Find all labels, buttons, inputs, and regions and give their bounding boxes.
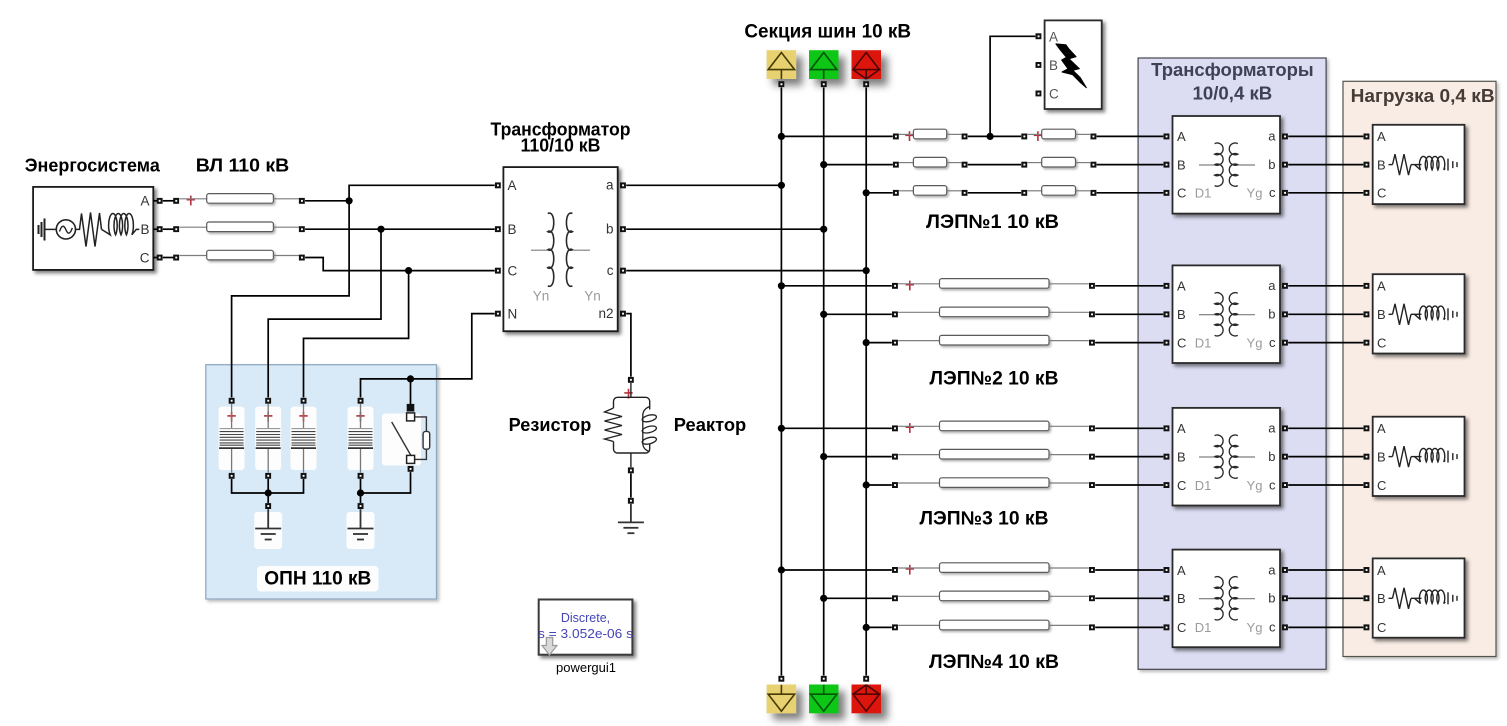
svg-text:A: A (508, 178, 517, 193)
wire LEP3 to transformer 3 C (1095, 484, 1163, 486)
block transformer 10/0.4 #3 (1173, 408, 1281, 506)
wire n2 down to RL branch (626, 314, 631, 377)
VL 110 kV line block phase C (207, 250, 274, 260)
source output port A (157, 198, 163, 204)
LEP1 seg1 input port A (893, 134, 899, 140)
arrester 3 background (291, 407, 317, 470)
ground 2 symbol (348, 509, 374, 539)
bus block top phase B (809, 50, 839, 79)
transformer 110/10 output port c (620, 268, 626, 274)
svg-text:A: A (1177, 421, 1186, 436)
LEP2 output port A (1089, 283, 1095, 289)
arrester 2 icon (256, 404, 281, 473)
svg-text:a: a (606, 178, 614, 193)
LEP4 right stub B (1049, 595, 1089, 597)
transformer 1 output port b (1282, 162, 1288, 168)
transformer 110/10 input port B (495, 226, 501, 232)
svg-text:B: B (1177, 157, 1186, 172)
LEP1 seg2 right stub B (1076, 162, 1091, 164)
junction bus to LEP4 B (820, 595, 827, 602)
transformer 1 secondary winding (1229, 143, 1238, 186)
svg-text:C: C (140, 250, 150, 265)
svg-text:B: B (1377, 157, 1386, 172)
wire LEP1 mid A (968, 135, 1021, 137)
LEP3 output port C (1089, 482, 1095, 488)
LEP4 output port B (1089, 595, 1095, 601)
wire LEP4 to transformer 4 C (1095, 626, 1163, 628)
transformer 2 input port A (1164, 283, 1170, 289)
arrester 1 polarity + (227, 412, 235, 422)
block powergui1 (539, 600, 633, 655)
VL 110 kV line block phase B (207, 222, 274, 232)
svg-text:Yg: Yg (1247, 620, 1263, 635)
transformer 2 secondary winding (1229, 293, 1238, 336)
wire transformer output c to bus (626, 270, 866, 272)
transformer 1 secondary stub (1238, 164, 1255, 166)
bus top port C (863, 81, 869, 87)
svg-text:Резистор: Резистор (509, 415, 592, 435)
breaker background (382, 414, 421, 466)
VL B right stub (273, 226, 299, 228)
block three-phase fault (1045, 20, 1102, 109)
VL line input port A (173, 198, 179, 204)
wire VL A to junction (305, 200, 349, 202)
LEP3 output port B (1089, 454, 1095, 460)
wire transformer 3 to load 3 C (1288, 484, 1363, 486)
LEP1 10 kV line segment 1 phase B (913, 157, 946, 167)
transformer 110/10 input port N (495, 311, 501, 317)
wire A down to arrester 1 (232, 201, 350, 398)
junction LEP1 fault tap (987, 133, 994, 140)
svg-text:b: b (1268, 307, 1275, 322)
LEP4 input port B (892, 595, 898, 601)
LEP2 right stub B (1049, 311, 1089, 313)
LEP1 seg2 input port B (1021, 162, 1027, 168)
svg-text:Yg: Yg (1247, 478, 1263, 493)
LEP1 seg2 right stub C (1076, 190, 1091, 192)
LEP2 left stub B (898, 311, 939, 313)
LEP3 left stub B (898, 454, 939, 456)
wire bus to LEP3 A (781, 427, 891, 429)
svg-text:C: C (1177, 186, 1186, 201)
svg-text:Энергосистема: Энергосистема (25, 156, 161, 176)
block transformer 10/0.4 #1 (1173, 116, 1281, 214)
LEP4 10 kV line block phase A (940, 563, 1050, 573)
transformer 110/10 output port a (620, 182, 626, 188)
breaker output port (408, 466, 414, 472)
arrester 1 input port (229, 398, 235, 404)
arrester 4 output port (358, 473, 364, 479)
LEP4 measurement + (906, 565, 914, 575)
svg-text:C: C (1177, 335, 1186, 350)
wire A up to transformer input A (349, 185, 495, 201)
wire port pair B (163, 228, 176, 230)
wire LEP3 to transformer 3 B (1095, 456, 1163, 458)
load 3 RLC icon (1389, 446, 1458, 467)
junction bus b (820, 226, 827, 233)
transformer 2 output port b (1282, 311, 1288, 317)
bus top port A (778, 81, 784, 87)
wire LEP2 to transformer 2 B (1095, 313, 1163, 315)
svg-text:B: B (1177, 591, 1186, 606)
svg-text:c: c (607, 263, 614, 278)
transformer 3 output port c (1282, 482, 1288, 488)
LEP1 seg2 input port C (1021, 190, 1027, 196)
svg-text:B: B (140, 222, 149, 237)
svg-text:a: a (1268, 562, 1276, 577)
transformer 110/10 output port b (620, 226, 626, 232)
LEP1 10 kV line segment 2 phase A (1042, 129, 1076, 139)
load 3 input port C (1364, 482, 1370, 488)
transformer 1 input port A (1164, 134, 1170, 140)
transformer 2 input port B (1164, 311, 1170, 317)
RL branch polarity + (624, 389, 632, 399)
fault block input port C (1036, 91, 1042, 97)
wire arresters 1-3 common (232, 479, 304, 493)
svg-text:C: C (1377, 186, 1386, 201)
junction arrester 4 / breaker (357, 489, 364, 496)
transformer 110/10 input port A (495, 182, 501, 188)
block load 0.4 kV #3 (1373, 417, 1465, 496)
bus block top phase C (852, 50, 882, 79)
svg-text:n2: n2 (598, 306, 613, 321)
arrester 2 background (255, 407, 281, 470)
wire transformer 2 to load 2 C (1288, 342, 1363, 344)
LEP1 seg2 measurement + (1034, 131, 1042, 141)
transformer 1 input port B (1164, 162, 1170, 168)
wire bus to LEP4 A (781, 569, 891, 571)
bus vertical line phase C (865, 87, 867, 675)
wire transformer 4 to load 4 A (1288, 569, 1363, 571)
wire bus to LEP2 A (781, 285, 891, 287)
LEP1 seg1 left stub C (899, 190, 913, 192)
fault block input port A (1036, 33, 1042, 39)
powergui arrow icon (542, 638, 557, 656)
load 1 input port A (1364, 134, 1370, 140)
wire port pair A (163, 200, 176, 202)
wire LEP1 mid C (968, 192, 1021, 194)
wire transformer 3 to load 3 A (1288, 427, 1363, 429)
breaker terminal squares (407, 413, 415, 464)
VL line input port C (173, 255, 179, 261)
VL phase A measurement + (187, 196, 195, 206)
arrester 1 icon (219, 404, 244, 473)
arrester 3 output port (301, 473, 307, 479)
LEP1 seg1 right stub B (947, 162, 962, 164)
bus block bottom triangle C (853, 685, 879, 711)
LEP4 right stub A (1049, 567, 1089, 569)
svg-text:b: b (1268, 591, 1275, 606)
junction VL B (377, 226, 384, 233)
transformer 2 primary stub (1199, 314, 1214, 316)
arrester 4 polarity + (356, 412, 364, 422)
LEP1 measurement + (905, 131, 913, 141)
wire bus to LEP3 B (824, 456, 892, 458)
load 1 input port B (1364, 162, 1370, 168)
svg-text:b: b (606, 222, 614, 237)
RL branch frame (614, 383, 650, 467)
ground 1 symbol (255, 509, 281, 539)
LEP3 right stub A (1049, 425, 1089, 427)
bus vertical line phase B (823, 87, 825, 675)
transformer 4 input port A (1164, 567, 1170, 573)
wire B down to arrester 2 (268, 229, 381, 397)
wire transformer output a to bus (626, 184, 781, 186)
load 2 RLC icon (1389, 304, 1458, 325)
svg-text:Нагрузка 0,4 кВ: Нагрузка 0,4 кВ (1351, 86, 1495, 106)
svg-text:D1: D1 (1195, 620, 1212, 635)
svg-text:b: b (1268, 449, 1275, 464)
LEP2 input port B (892, 311, 898, 317)
LEP1 seg2 output port C (1091, 190, 1097, 196)
wire transformer 3 to load 3 B (1288, 456, 1363, 458)
LEP1 seg1 right stub C (947, 190, 962, 192)
svg-text:A: A (1377, 129, 1386, 144)
wire N to arrester 4 and breaker (361, 314, 495, 398)
svg-text:powergui1: powergui1 (556, 660, 616, 675)
wire transformer 1 to load 1 C (1288, 192, 1363, 194)
svg-text:D1: D1 (1195, 186, 1212, 201)
wire transformer 1 to load 1 A (1288, 135, 1363, 137)
wire transformer output b to bus (626, 228, 824, 230)
VL 110 kV line block phase A (207, 194, 274, 204)
block load 0.4 kV #4 (1373, 558, 1465, 637)
source icon AC circle with sine (56, 220, 75, 239)
load 3 input port B (1364, 454, 1370, 460)
svg-text:A: A (1177, 563, 1186, 578)
junction bus to LEP3 A (778, 425, 785, 432)
LEP4 10 kV line block phase C (940, 620, 1050, 630)
LEP4 output port C (1089, 624, 1095, 630)
LEP1 seg1 right stub A (947, 133, 962, 135)
VL B left stub (179, 226, 206, 228)
junction arresters common (265, 489, 272, 496)
LEP4 10 kV line block phase B (940, 591, 1050, 601)
LEP4 input port A (892, 567, 898, 573)
transformer 3 primary stub (1199, 456, 1214, 458)
transformer 2 output port c (1282, 340, 1288, 346)
wire transformer 4 to load 4 C (1288, 626, 1363, 628)
VL A right stub (273, 198, 299, 200)
junction bus to LEP2 B (820, 311, 827, 318)
svg-text:B: B (1377, 591, 1386, 606)
arrester 4 background (348, 407, 374, 470)
LEP2 right stub A (1049, 283, 1089, 285)
transformer 3 output port b (1282, 454, 1288, 460)
bus block bottom triangle A (768, 685, 794, 711)
LEP3 right stub C (1049, 482, 1089, 484)
svg-text:c: c (1269, 620, 1276, 635)
arrester 3 polarity + (299, 412, 307, 422)
bus bottom port A (778, 676, 784, 682)
transformer 3 input port A (1164, 425, 1170, 431)
bus block top phase A (767, 50, 797, 79)
wire arrester 2 down (267, 479, 269, 503)
transformer 3 primary winding (1215, 435, 1224, 478)
transformer 3 output port a (1282, 425, 1288, 431)
LEP1 seg1 left stub A (899, 133, 913, 135)
junction bus to LEP3 B (820, 453, 827, 460)
svg-text:B: B (508, 222, 517, 237)
svg-text:A: A (140, 194, 149, 209)
arrester 2 output port (265, 473, 271, 479)
breaker top port (407, 404, 415, 412)
transformer 1 output port c (1282, 190, 1288, 196)
LEP1 10 kV line segment 1 phase C (913, 186, 946, 196)
region box Transformers 10/0.4 kV (lavender) (1138, 58, 1326, 669)
svg-text:Реактор: Реактор (674, 415, 746, 435)
svg-text:C: C (1049, 87, 1059, 102)
LEP1 seg1 input port B (893, 162, 899, 168)
wire source B to port (153, 228, 159, 230)
wire LEP2 to transformer 2 A (1095, 285, 1163, 287)
wire LEP1 to transformer 1 C (1097, 192, 1164, 194)
label background ОПН 110 кВ (257, 566, 379, 592)
LEP1 seg2 left stub C (1028, 190, 1042, 192)
junction bus to LEP4 A (778, 566, 785, 573)
block load 0.4 kV #2 (1373, 274, 1465, 353)
bus bottom port C (863, 676, 869, 682)
source output port C (157, 255, 163, 261)
LEP1 10 kV line segment 2 phase C (1042, 186, 1076, 196)
arrester 2 polarity + (264, 412, 272, 422)
block transformer 10/0.4 #2 (1173, 265, 1281, 363)
bus top port B (821, 81, 827, 87)
LEP2 left stub A (898, 283, 939, 285)
LEP3 left stub C (898, 482, 939, 484)
transformer 4 input port C (1164, 624, 1170, 630)
transformer 4 output port b (1282, 595, 1288, 601)
svg-text:C: C (1377, 478, 1386, 493)
load 1 RLC icon (1389, 154, 1458, 175)
wire C down to arrester 3 (304, 271, 409, 398)
svg-text:Yn: Yn (533, 289, 550, 304)
wire bus to LEP2 B (824, 313, 892, 315)
transformer 110/10 input port C (495, 268, 501, 274)
LEP3 output port A (1089, 425, 1095, 431)
svg-text:C: C (1377, 335, 1386, 350)
arrester 2 input port (265, 398, 271, 404)
svg-text:B: B (1377, 307, 1386, 322)
LEP4 left stub A (898, 567, 939, 569)
svg-text:A: A (1049, 29, 1058, 44)
LEP2 10 kV line block phase A (940, 279, 1050, 289)
resistor zigzag (Резистор) (605, 408, 623, 442)
VL line output port C (299, 255, 305, 261)
transformer 4 secondary winding (1229, 577, 1238, 620)
LEP1 seg2 output port B (1091, 162, 1097, 168)
svg-text:ЛЭП№3 10 кВ: ЛЭП№3 10 кВ (920, 509, 1049, 530)
LEP1 10 kV line segment 2 phase B (1042, 157, 1076, 167)
wire VL B to transformer input B (305, 228, 495, 230)
LEP4 left stub C (898, 624, 939, 626)
svg-text:B: B (1177, 449, 1186, 464)
ground 1 background (254, 512, 282, 549)
svg-text:c: c (1269, 477, 1276, 492)
svg-text:a: a (1268, 278, 1276, 293)
transformer 110/10 output port n2 (620, 311, 626, 317)
svg-text:B: B (1049, 58, 1058, 73)
arrester 3 input port (301, 398, 307, 404)
LEP2 measurement + (906, 281, 914, 291)
wire bus to LEP3 C (866, 484, 892, 486)
svg-text:Yn: Yn (584, 289, 601, 304)
source icon series resistor zigzag (76, 213, 102, 247)
breaker switch (392, 417, 430, 460)
svg-text:Yg: Yg (1247, 186, 1263, 201)
svg-text:a: a (1268, 129, 1276, 144)
wire bus to LEP1 B (824, 164, 893, 166)
transformer 4 input port B (1164, 595, 1170, 601)
block transformer 10/0.4 #4 (1173, 550, 1281, 648)
junction bus to LEP3 C (863, 481, 870, 488)
junction VL C (405, 267, 412, 274)
svg-text:ВЛ 110 кВ: ВЛ 110 кВ (196, 156, 290, 176)
junction bus a (778, 182, 785, 189)
transformer 2 secondary stub (1238, 314, 1255, 316)
svg-text:C: C (1377, 620, 1386, 635)
bus block bottom phase B (809, 685, 839, 714)
arrester 1 output port (229, 473, 235, 479)
block load 0.4 kV #1 (1373, 125, 1465, 204)
load 4 input port B (1364, 595, 1370, 601)
load 2 input port C (1364, 340, 1370, 346)
ground 3 symbol (618, 504, 644, 533)
svg-text:A: A (1177, 129, 1186, 144)
LEP1 seg2 right stub A (1076, 133, 1091, 135)
wire transformer 2 to load 2 A (1288, 285, 1363, 287)
transformer 1 primary winding (1215, 143, 1224, 186)
transformer 110/10 secondary winding (566, 213, 572, 286)
load 2 input port B (1364, 311, 1370, 317)
transformer 110/10 primary stub (531, 249, 548, 251)
load 4 input port C (1364, 624, 1370, 630)
junction bus to LEP1 B (820, 161, 827, 168)
svg-text:c: c (1269, 335, 1276, 350)
LEP3 10 kV line block phase A (940, 421, 1050, 431)
VL line output port A (299, 198, 305, 204)
LEP2 10 kV line block phase C (940, 335, 1050, 345)
wire bus to LEP1 A (781, 135, 892, 137)
LEP3 10 kV line block phase C (940, 478, 1050, 488)
transformer 4 secondary stub (1238, 598, 1255, 600)
LEP2 input port C (892, 340, 898, 346)
svg-text:a: a (1268, 421, 1276, 436)
LEP3 input port C (892, 482, 898, 488)
transformer 2 input port C (1164, 340, 1170, 346)
junction bus to LEP1 A (778, 133, 785, 140)
svg-text:ЛЭП№2 10 кВ: ЛЭП№2 10 кВ (930, 369, 1059, 390)
LEP1 seg2 input port A (1021, 134, 1027, 140)
block Энергосистема (three-phase source) (33, 187, 153, 270)
VL C left stub (179, 255, 206, 257)
load 1 input port C (1364, 190, 1370, 196)
RL branch input port (628, 377, 634, 383)
wire source C to port (153, 257, 159, 259)
junction bus to LEP2 C (863, 339, 870, 346)
svg-text:N: N (508, 306, 518, 321)
block Трансформатор 110/10 кВ (503, 167, 617, 331)
wire breaker to ground 2 (361, 472, 411, 493)
region box Load 0.4 kV (pink) (1343, 81, 1496, 656)
LEP4 left stub B (898, 595, 939, 597)
svg-text:b: b (1268, 157, 1275, 172)
wire bus to LEP4 C (866, 626, 892, 628)
svg-text:ЛЭП№4 10 кВ: ЛЭП№4 10 кВ (929, 652, 1059, 673)
reactor coil (Реактор) (641, 407, 657, 452)
bus block bottom phase C (852, 685, 882, 714)
source icon series inductor coil (102, 213, 140, 234)
